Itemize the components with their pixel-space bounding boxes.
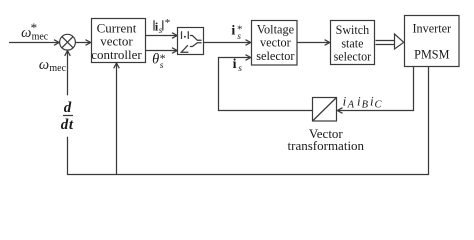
wire: theta s* signal: [146, 50, 177, 52]
wire: speed feedback bottom: [68, 67, 429, 175]
svg-text:i: i: [370, 94, 374, 109]
svg-text:ω: ω: [39, 57, 49, 73]
svg-text:*: *: [31, 20, 37, 35]
block: magnitude/angle selector: [178, 28, 204, 55]
wire: speed reference input: [9, 42, 59, 44]
svg-text:i: i: [233, 57, 237, 72]
wire: derivative to summing junction: [67, 51, 69, 95]
block: Switch state selector: [331, 21, 375, 65]
svg-text:*: *: [165, 17, 171, 29]
svg-text:s: s: [238, 64, 242, 74]
wire: voltage selector to switch selector: [297, 42, 329, 44]
svg-text:d: d: [64, 100, 72, 116]
svg-text:C: C: [375, 100, 383, 111]
svg-text:A: A: [347, 100, 355, 111]
wire: stator currents from inverter: [338, 67, 414, 111]
svg-text:θ: θ: [152, 51, 159, 67]
magnitude symbol: [182, 31, 189, 39]
wire: junction to controller: [75, 42, 90, 44]
svg-text:mec: mec: [49, 63, 66, 74]
svg-text:vector: vector: [260, 36, 291, 50]
svg-text:B: B: [362, 100, 369, 111]
block: vector transformation: [313, 98, 337, 122]
svg-text:i: i: [343, 94, 347, 109]
switch symbol bottom: [190, 43, 202, 47]
svg-text:i: i: [231, 24, 235, 39]
hollow arrow to inverter: [376, 41, 395, 45]
wire: |is|* signal: [146, 35, 177, 37]
block: Voltage vector selector: [252, 21, 298, 66]
svg-text:Inverter: Inverter: [413, 22, 452, 36]
svg-text:selector: selector: [256, 49, 294, 63]
angle symbol: [181, 45, 188, 52]
svg-text:s: s: [160, 61, 164, 71]
svg-text:Voltage: Voltage: [257, 22, 295, 36]
label |is|*: [154, 20, 163, 30]
svg-text:Switch: Switch: [336, 23, 370, 37]
wire: is* to voltage vector selector: [204, 42, 251, 44]
svg-text:dt: dt: [61, 117, 74, 133]
svg-text:controller: controller: [91, 47, 142, 62]
wire: is feedback to voltage vector selector: [219, 58, 313, 111]
svg-text:transformation: transformation: [288, 138, 365, 153]
svg-text:PMSM: PMSM: [414, 48, 449, 62]
svg-text:s: s: [237, 32, 241, 42]
node: summing junction: [60, 34, 76, 50]
wire: branch to controller: [116, 64, 118, 175]
svg-text:i: i: [357, 94, 361, 109]
svg-text:state: state: [341, 36, 363, 50]
svg-text:s: s: [159, 25, 163, 35]
block: Current vector controller: [92, 19, 146, 63]
svg-text:selector: selector: [334, 50, 372, 64]
block: Inverter PMSM: [405, 16, 460, 67]
switch symbol top: [190, 36, 202, 41]
